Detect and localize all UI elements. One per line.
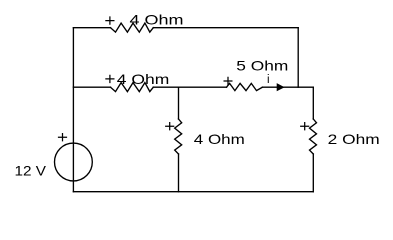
svg-text:4 Ohm: 4 Ohm xyxy=(194,131,245,147)
svg-text:4 Ohm: 4 Ohm xyxy=(117,71,170,87)
resistor 4 Ohm (middle) xyxy=(111,83,154,92)
svg-text:4 Ohm: 4 Ohm xyxy=(130,11,184,27)
wire middle rail center segment xyxy=(153,86,226,88)
svg-text:2 Ohm: 2 Ohm xyxy=(328,131,380,147)
wire bottom rail xyxy=(73,191,313,193)
polarity + (2 Ohm) xyxy=(300,122,309,130)
polarity + (vertical 4 Ohm) xyxy=(165,122,174,130)
resistor 4 Ohm (top) xyxy=(111,23,154,32)
wire upper-right vertical (node to middle rail) xyxy=(297,28,299,87)
resistor 4 Ohm (vertical branch) xyxy=(175,119,182,154)
polarity + (5 Ohm) xyxy=(224,77,233,85)
polarity + (top 4 Ohm) xyxy=(105,16,114,24)
svg-text:12 V: 12 V xyxy=(15,163,47,179)
polarity + (middle 4 Ohm) xyxy=(105,75,114,83)
svg-text:i: i xyxy=(267,74,270,86)
resistor 2 Ohm xyxy=(310,119,317,154)
svg-text:5 Ohm: 5 Ohm xyxy=(236,57,288,73)
wire left vertical xyxy=(72,28,74,192)
wire right vertical (bottom) xyxy=(312,154,314,192)
wire middle rail right segment xyxy=(262,86,313,88)
wire middle rail left segment xyxy=(73,86,110,88)
voltage source V 12 V (circle) xyxy=(55,143,93,181)
current arrow i xyxy=(277,84,283,90)
wire middle branch vertical (bottom) xyxy=(178,154,180,192)
polarity + (source) xyxy=(58,133,67,141)
wire top-left segment xyxy=(73,27,110,29)
wire middle branch vertical (top) xyxy=(178,87,180,119)
wire right vertical (top) xyxy=(312,87,314,119)
wire top-right segment xyxy=(153,27,298,29)
resistor 5 Ohm xyxy=(227,83,263,90)
